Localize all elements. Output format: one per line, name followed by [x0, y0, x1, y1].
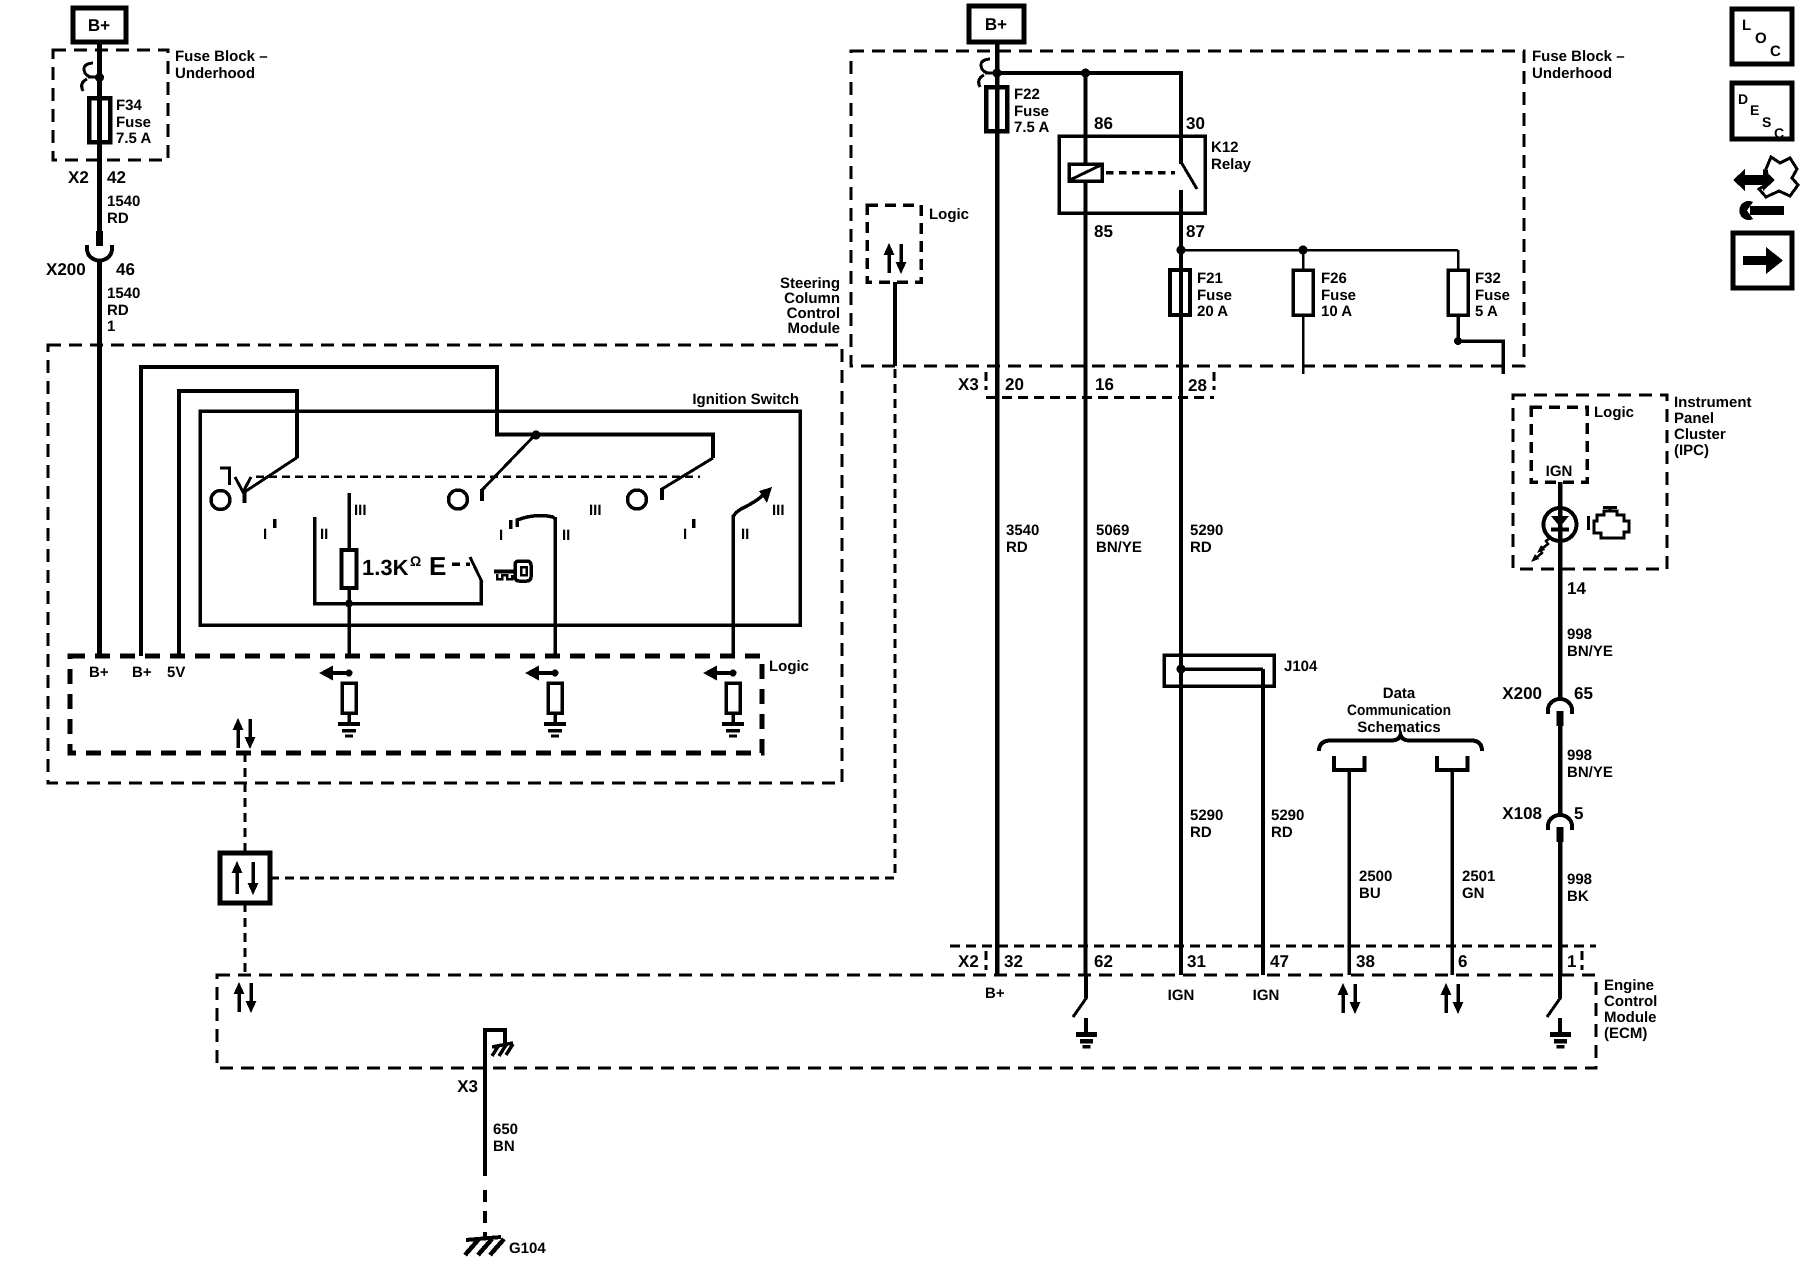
wire J104 to ECM pin 47 [1261, 669, 1265, 975]
engine icon (MIL) [1589, 507, 1630, 538]
ground (logic 1) [338, 713, 360, 736]
svg-text:III: III [772, 502, 785, 519]
svg-text:Ignition Switch: Ignition Switch [692, 391, 799, 408]
logic input arrow 1 [319, 666, 353, 681]
IGN driver box [1531, 407, 1587, 482]
serial data arrows inside ECM [234, 982, 257, 1013]
wire wafer D to logic [731, 515, 735, 658]
dashed wire to G104 [483, 1190, 487, 1238]
wire B+ feed to wafer B and C [141, 367, 713, 656]
svg-text:I: I [263, 526, 267, 543]
inline connector X200 pin 65 [1502, 684, 1593, 726]
svg-text:C: C [1770, 43, 1781, 60]
wire 5V feed to wafer A [179, 391, 297, 656]
svg-text:RD: RD [107, 210, 129, 227]
svg-text:Fuse: Fuse [1321, 287, 1356, 304]
relay pin labels 86 30 [1094, 114, 1205, 133]
connector X2 pin 42 [68, 168, 126, 187]
wafer A contact III wire [347, 493, 351, 550]
indicator lamp (LED) [1531, 508, 1577, 562]
inline connector X108 pin 5 [1502, 804, 1583, 842]
battery feed B+ (middle) [969, 6, 1024, 42]
fuse F21 20 A [1170, 270, 1232, 320]
ground (logic 2) [544, 713, 566, 736]
svg-text:RD: RD [1190, 824, 1212, 841]
svg-text:E: E [429, 551, 446, 581]
serial data arrows at pin 38 [1338, 983, 1361, 1014]
logic pulldown resistor 1 [342, 683, 356, 713]
label K12 relay [1211, 139, 1252, 173]
wire label 650 BN [493, 1121, 518, 1155]
svg-text:S: S [1762, 114, 1771, 130]
junction pin 86 tap [1081, 69, 1090, 78]
svg-text:5290: 5290 [1190, 522, 1223, 539]
ground (logic 3) [722, 713, 744, 736]
svg-text:Underhood: Underhood [175, 65, 255, 82]
wafer C stationary contact arc [517, 516, 555, 527]
LOC nav box [1732, 9, 1792, 64]
label engine control module [1604, 977, 1657, 1042]
svg-text:46: 46 [116, 260, 135, 279]
svg-text:7.5 A: 7.5 A [116, 130, 151, 147]
wafer A moving arm [245, 458, 298, 504]
svg-text:47: 47 [1270, 952, 1289, 971]
svg-text:5290: 5290 [1271, 807, 1304, 824]
label fuse block underhood (left) [175, 48, 268, 82]
wire bus to relay pins 86 and 30 [997, 73, 1181, 164]
wire coil to X3 pin 16 [1084, 181, 1088, 975]
logic input arrow 3 [703, 666, 737, 681]
svg-text:I: I [499, 527, 503, 544]
fuse F26 10 A [1293, 250, 1356, 374]
serial data arrows at pin 6 [1441, 983, 1464, 1014]
svg-text:C: C [1774, 125, 1784, 141]
svg-text:F34: F34 [116, 97, 143, 114]
svg-text:(ECM): (ECM) [1604, 1025, 1647, 1042]
svg-text:2501: 2501 [1462, 868, 1495, 885]
key icon [494, 561, 531, 581]
wire label 998 BK [1567, 871, 1592, 905]
svg-text:B+: B+ [985, 15, 1007, 34]
logic pin labels B+ B+ 5V [89, 664, 185, 681]
internal ground at pin 62 [1073, 975, 1097, 1047]
svg-text:BN/YE: BN/YE [1567, 764, 1613, 781]
logic pulldown resistor 3 [726, 683, 740, 713]
wire 998 BK to ECM pin 1 [1558, 842, 1563, 975]
wire J104 to ECM pin 31 [1179, 669, 1183, 975]
svg-text:II: II [320, 526, 328, 543]
svg-text:Fuse: Fuse [1475, 287, 1510, 304]
svg-text:Logic: Logic [769, 658, 809, 675]
svg-text:Module: Module [788, 320, 841, 337]
label steering column control module [780, 275, 840, 337]
logic box (steering column module) [70, 656, 762, 753]
svg-text:RD: RD [1190, 539, 1212, 556]
svg-text:Fuse: Fuse [1197, 287, 1232, 304]
svg-text:7.5 A: 7.5 A [1014, 119, 1049, 136]
connector X2 row [950, 946, 1596, 971]
brace data communication [1319, 735, 1482, 751]
svg-text:X2: X2 [958, 952, 979, 971]
svg-text:K12: K12 [1211, 139, 1239, 156]
off-page connector (pin 38) [1334, 756, 1365, 770]
junction at F26 [1299, 246, 1308, 255]
wire label 3540 RD [1006, 522, 1039, 556]
svg-text:B+: B+ [985, 985, 1005, 1002]
wire label 5290 RD (pin 31) [1190, 807, 1223, 841]
bus tap symbol at F34 [82, 63, 104, 91]
junction resistor / key switch [345, 600, 353, 608]
wafer B/C position labels [499, 502, 602, 544]
logic pulldown resistor 2 [548, 683, 562, 713]
svg-text:E: E [1750, 102, 1759, 118]
svg-text:Fuse: Fuse [1014, 103, 1049, 120]
wire 1540 RD upper label [107, 193, 140, 227]
svg-text:BN/YE: BN/YE [1096, 539, 1142, 556]
svg-text:G104: G104 [509, 1240, 546, 1257]
svg-text:X3: X3 [457, 1077, 478, 1096]
wire wafer C contact to logic [553, 517, 557, 658]
svg-text:5069: 5069 [1096, 522, 1129, 539]
wire label 998 BN/YE (lower) [1567, 747, 1613, 781]
svg-text:Relay: Relay [1211, 156, 1252, 173]
svg-text:Fuse Block –: Fuse Block – [175, 48, 268, 65]
svg-text:IGN: IGN [1168, 987, 1195, 1004]
svg-text:Logic: Logic [929, 206, 969, 223]
junction wafer B arm [532, 431, 541, 440]
svg-text:16: 16 [1095, 375, 1114, 394]
dashed data wire to ECM [244, 903, 247, 975]
wafer A lock mark [220, 468, 251, 492]
wire relay 87 down [1179, 190, 1183, 669]
wire label 5069 BN/YE [1096, 522, 1142, 556]
wire 2500 BU [1347, 770, 1351, 975]
label instrument panel cluster [1674, 394, 1752, 459]
label data communication schematics [1347, 685, 1451, 736]
wire through F34 [97, 62, 102, 233]
wire resistor to logic [347, 588, 351, 658]
svg-text:O: O [1755, 30, 1767, 47]
bus tap symbol at F22 [979, 59, 1002, 87]
wire 1540 RD lower [97, 260, 102, 656]
ground G104 [465, 1237, 546, 1257]
svg-text:998: 998 [1567, 747, 1592, 764]
svg-text:IGN: IGN [1253, 987, 1280, 1004]
svg-text:2500: 2500 [1359, 868, 1392, 885]
wafer A position labels I II III [263, 502, 367, 543]
switch mechanical linkage (dashed) [256, 475, 700, 478]
svg-text:14: 14 [1567, 579, 1586, 598]
svg-text:998: 998 [1567, 871, 1592, 888]
wire 1540 RD lower label [107, 285, 140, 335]
wafer D moving arm with arrow [733, 487, 772, 517]
svg-text:Panel: Panel [1674, 410, 1714, 427]
svg-text:5: 5 [1574, 804, 1583, 823]
internal ground at pin 1 [1547, 975, 1571, 1047]
svg-text:3540: 3540 [1006, 522, 1039, 539]
wire 87 to fuses F21 F26 F32 [1181, 249, 1458, 252]
relay coil-contact link (dashed) [1106, 171, 1175, 175]
wire label 998 BN/YE (upper) [1567, 626, 1613, 660]
svg-text:BK: BK [1567, 888, 1589, 905]
dashed data wire to middle logic [270, 369, 895, 878]
svg-text:28: 28 [1188, 376, 1207, 395]
svg-text:6: 6 [1458, 952, 1467, 971]
svg-text:5 A: 5 A [1475, 303, 1498, 320]
wafer B pivot circle [449, 490, 468, 509]
svg-text:62: 62 [1094, 952, 1113, 971]
svg-text:BN/YE: BN/YE [1567, 643, 1613, 660]
svg-text:X108: X108 [1502, 804, 1542, 823]
logic serial data arrows [233, 718, 256, 749]
wafer A contact II wire [315, 517, 482, 604]
wire 2501 GN [1450, 770, 1454, 975]
svg-text:BU: BU [1359, 885, 1381, 902]
relay contact arm [1181, 162, 1197, 189]
key switch E contact [429, 551, 482, 582]
svg-text:X200: X200 [1502, 684, 1542, 703]
svg-text:1: 1 [1567, 952, 1576, 971]
wire pin 86 to coil [1084, 73, 1088, 165]
svg-text:IGN: IGN [1546, 463, 1573, 480]
svg-text:II: II [562, 527, 570, 544]
svg-text:F22: F22 [1014, 86, 1040, 103]
svg-text:87: 87 [1186, 222, 1205, 241]
svg-text:1540: 1540 [107, 285, 140, 302]
svg-text:(IPC): (IPC) [1674, 442, 1709, 459]
svg-text:Logic: Logic [1594, 404, 1634, 421]
forward nav box [1733, 233, 1792, 288]
svg-text:31: 31 [1187, 952, 1206, 971]
svg-text:650: 650 [493, 1121, 518, 1138]
svg-text:20: 20 [1005, 375, 1024, 394]
svg-text:III: III [354, 502, 367, 519]
ignition switch box [200, 411, 800, 625]
svg-text:F32: F32 [1475, 270, 1501, 287]
resistor 1.3K ohm [342, 550, 422, 588]
wire middle logic to data wire [893, 282, 897, 366]
splice J104 [1164, 655, 1318, 686]
svg-text:1.3K: 1.3K [362, 555, 409, 580]
wire label 5290 RD [1190, 522, 1223, 556]
relay pin labels 85 87 [1094, 222, 1205, 241]
svg-text:Communication: Communication [1347, 702, 1451, 719]
svg-text:998: 998 [1567, 626, 1592, 643]
logic box (fuse block) [867, 205, 921, 282]
svg-text:F26: F26 [1321, 270, 1347, 287]
off-page connector (pin 6) [1437, 756, 1468, 770]
svg-text:B+: B+ [89, 664, 109, 681]
svg-text:X200: X200 [46, 260, 86, 279]
wafer A pivot circle [211, 491, 230, 510]
serial data link box [220, 853, 270, 903]
fuse F22 7.5 A [986, 86, 1049, 136]
svg-text:10 A: 10 A [1321, 303, 1352, 320]
svg-text:X3: X3 [958, 375, 979, 394]
svg-text:II: II [741, 526, 749, 543]
svg-text:III: III [589, 502, 602, 519]
svg-text:5V: 5V [167, 664, 185, 681]
svg-text:D: D [1738, 91, 1748, 107]
svg-text:F21: F21 [1197, 270, 1223, 287]
battery feed B+ (left) [73, 8, 126, 42]
svg-text:L: L [1742, 17, 1751, 34]
svg-text:RD: RD [1271, 824, 1293, 841]
svg-text:Data: Data [1383, 685, 1416, 702]
svg-text:42: 42 [107, 168, 126, 187]
svg-text:B+: B+ [132, 664, 152, 681]
svg-text:J104: J104 [1284, 658, 1318, 675]
svg-text:Module: Module [1604, 1009, 1657, 1026]
wafer B moving arm [482, 436, 534, 501]
svg-text:Underhood: Underhood [1532, 65, 1612, 82]
fuse block underhood box (middle) [851, 51, 1524, 366]
fuse F32 5 A [1448, 250, 1510, 374]
svg-text:BN: BN [493, 1138, 515, 1155]
wire B+ to fuse block [97, 42, 102, 62]
wire X200 to X108 [1558, 726, 1563, 814]
svg-text:85: 85 [1094, 222, 1113, 241]
fuse block underhood box (left) [53, 50, 168, 160]
label fuse block underhood (middle) [1532, 48, 1625, 82]
steering column control module box [48, 345, 842, 783]
fuse F34 7.5 A [89, 97, 151, 147]
connector X3 row [958, 372, 1214, 398]
svg-text:38: 38 [1356, 952, 1375, 971]
inline connector X200 pin 46 [46, 231, 135, 279]
svg-text:B+: B+ [88, 16, 110, 35]
wafer C pivot circle [628, 490, 647, 509]
svg-text:Instrument: Instrument [1674, 394, 1752, 411]
wafer C moving arm [662, 458, 713, 500]
relay K12 box [1059, 136, 1205, 213]
svg-text:Control: Control [1604, 993, 1657, 1010]
diagnostic icon (arrows and wrench) [1733, 157, 1798, 220]
logic serial data arrows (middle) [884, 243, 907, 274]
svg-text:30: 30 [1186, 114, 1205, 133]
wire 650 BN [483, 1068, 487, 1176]
svg-text:1: 1 [107, 318, 115, 335]
svg-text:86: 86 [1094, 114, 1113, 133]
wire label 2501 GN [1462, 868, 1495, 902]
DESC nav box [1732, 83, 1792, 141]
wire IGN to indicator [1558, 482, 1563, 698]
logic input arrow 2 [525, 666, 559, 681]
engine control module box [217, 975, 1596, 1068]
relay coil [1069, 164, 1102, 181]
svg-text:GN: GN [1462, 885, 1485, 902]
svg-text:Ω: Ω [410, 553, 421, 569]
svg-text:Cluster: Cluster [1674, 426, 1726, 443]
svg-text:Engine: Engine [1604, 977, 1654, 994]
svg-text:RD: RD [1006, 539, 1028, 556]
svg-text:X2: X2 [68, 168, 89, 187]
instrument panel cluster box [1513, 395, 1667, 569]
svg-text:Fuse: Fuse [116, 114, 151, 131]
ECM internal chassis ground (X3) [485, 1030, 513, 1068]
svg-text:1540: 1540 [107, 193, 140, 210]
svg-text:65: 65 [1574, 684, 1593, 703]
svg-text:20 A: 20 A [1197, 303, 1228, 320]
svg-text:32: 32 [1004, 952, 1023, 971]
dashed data wire below logic [244, 753, 247, 853]
svg-text:I: I [683, 526, 687, 543]
wafer D position labels [683, 502, 785, 543]
svg-text:Fuse Block –: Fuse Block – [1532, 48, 1625, 65]
svg-text:RD: RD [107, 302, 129, 319]
svg-text:5290: 5290 [1190, 807, 1223, 824]
wire B+ through F22 to X3 pin 20 [995, 42, 1000, 975]
junction at F21 [1177, 246, 1186, 255]
wire label 5290 RD (pin 47) [1271, 807, 1304, 841]
wire label 2500 BU [1359, 868, 1392, 902]
